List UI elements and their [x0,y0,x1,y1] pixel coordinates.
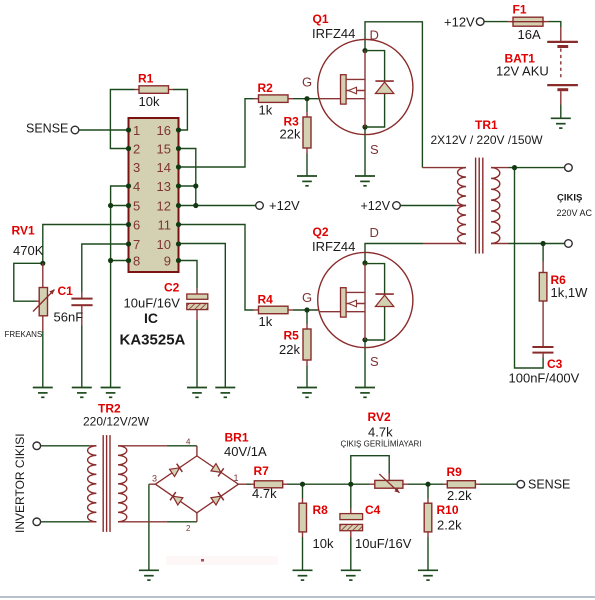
svg-text:+12V: +12V [269,198,300,213]
label R5 [284,329,300,343]
terminal SENSE top [71,126,79,134]
svg-text:IRFZ44: IRFZ44 [312,26,355,41]
value R7 4.7k [252,486,277,501]
svg-text:R10: R10 [437,503,459,517]
wire [179,244,226,388]
ground R10 [418,570,438,580]
wire [167,445,197,447]
battery BAT1 [547,27,578,105]
label INVERTOR CIKISI [13,433,27,533]
wire [111,186,129,388]
svg-text:C2: C2 [164,280,180,294]
label F1 [513,3,527,17]
node +12V top right [444,15,475,30]
svg-text:3: 3 [133,160,140,175]
wire [247,483,251,485]
svg-text:SENSE: SENSE [528,477,570,491]
label Q2 [313,225,329,239]
svg-text:470K: 470K [13,243,44,258]
label CIKIS [557,192,582,203]
svg-text:C1: C1 [58,284,74,298]
pin S Q1 [370,142,379,157]
value R2 1k [259,103,273,118]
junction Q1 source [362,124,367,129]
node +12V pin12 [269,198,300,213]
wire [41,445,89,447]
wire [179,99,254,167]
capacitor C1 [71,293,92,326]
label C3 [547,357,563,371]
bridge rectifier BR1 [149,446,247,522]
value RV1 470K [13,243,44,258]
resistor R6 [539,262,547,347]
svg-text:22k: 22k [280,127,301,142]
resistor R5 [303,324,311,366]
resistor R2 [254,95,294,103]
label Q1 [313,12,329,26]
svg-text:+12V: +12V [444,15,475,30]
svg-text:3: 3 [152,474,157,484]
value R3 22k [280,127,301,142]
label R7 [254,464,270,478]
svg-text:G: G [302,290,312,305]
svg-text:R7: R7 [254,464,270,478]
svg-text:15: 15 [157,141,171,156]
ground C4 [341,570,361,580]
svg-text:2.2k: 2.2k [437,518,462,533]
svg-text:5: 5 [133,198,140,213]
value R6 1k,1W [551,285,589,300]
svg-text:INVERTOR CIKISI: INVERTOR CIKISI [13,433,27,533]
label KA3525A [120,332,186,349]
junction TR1 secondary top [512,165,517,170]
wire [365,244,423,264]
wire [542,244,544,262]
label R2 [258,81,274,95]
wire [364,340,366,388]
svg-text:11: 11 [158,217,172,232]
label TR2 [98,402,121,416]
wire [110,90,134,149]
value C3 100nF/400V [509,371,580,386]
value C1 56nF [54,309,84,324]
node SENSE bottom [528,477,570,491]
label R4 [258,292,274,306]
junction R8 node [300,482,305,487]
wire [560,105,562,119]
ground pins 4-5-8 [101,388,121,398]
resistor R3 [303,112,311,154]
value Q1 IRFZ44 [312,26,355,41]
svg-text:7: 7 [133,237,140,252]
terminal CIKIS top [565,164,573,172]
wire [167,521,197,523]
svg-text:IRFZ44: IRFZ44 [312,239,355,254]
terminal SENSE bottom [517,480,525,488]
wire [148,484,150,570]
svg-text:16A: 16A [518,27,541,42]
wire [350,484,352,508]
pin D Q2 [370,225,379,240]
svg-text:220/12V/2W: 220/12V/2W [83,415,150,429]
terminal +12V top right [476,18,484,26]
pin G Q1 [302,75,312,90]
svg-text:22k: 22k [279,342,300,357]
label R3 [284,114,300,128]
resistor R4 [254,306,294,314]
svg-text:12V AKU: 12V AKU [496,64,549,79]
svg-text:13: 13 [157,179,171,194]
ground BAT1 [551,118,571,128]
value R4 1k [259,314,273,329]
pin 4 BR1 [186,438,191,447]
wire [179,185,196,187]
svg-text:9: 9 [164,253,171,268]
terminal invertor bottom [33,518,41,526]
potentiometer RV2 [370,474,409,493]
capacitor C4 [340,509,363,538]
wire [14,263,43,301]
wire [509,167,565,169]
label RV1 [12,223,35,237]
bottom rule [0,596,595,598]
wire [364,127,366,176]
label BAT1 [505,52,536,66]
junction Q2 gate node [304,307,309,312]
label C2 [164,280,180,294]
svg-text:10: 10 [157,237,171,252]
label R6 [551,273,567,287]
junction Q1 drain [362,48,367,53]
wire [196,320,198,388]
transistor Q1 IRFZ44 MOSFET [318,39,413,134]
label R9 [447,465,463,479]
svg-text:D: D [370,225,379,240]
pin 1 BR1 [234,473,239,483]
ground Q2 source [355,388,375,398]
svg-text:16: 16 [157,123,171,138]
svg-text:1: 1 [234,473,239,483]
svg-text:TR1: TR1 [475,118,498,132]
wire [351,456,389,485]
svg-text:220V AC: 220V AC [557,208,593,218]
ground C1 [72,388,92,398]
svg-text:40V/1A: 40V/1A [224,444,267,459]
junction R6 node [541,241,546,246]
svg-text:1: 1 [133,123,140,138]
svg-text:R8: R8 [313,503,329,517]
ground R5 [297,388,317,398]
junction R10 node [425,482,430,487]
label R8 [313,503,329,517]
svg-text:2.2k: 2.2k [447,488,472,503]
value R9 2.2k [447,488,472,503]
wire [365,22,422,168]
svg-text:4.7k: 4.7k [368,425,393,440]
label BR1 [225,431,249,445]
svg-text:14: 14 [157,160,171,175]
svg-text:G: G [302,75,312,90]
wire [179,205,256,207]
wire [79,129,129,131]
pin S Q2 [370,354,379,369]
wire [515,168,544,368]
wire [81,326,83,388]
svg-text:BR1: BR1 [225,431,249,445]
svg-text:RV1: RV1 [12,223,35,237]
label R10 [437,503,459,517]
junction Q2 source [362,337,367,342]
ground C2 [187,388,207,398]
ground R3 [297,176,317,186]
svg-text:ÇIKIŞ: ÇIKIŞ [557,192,582,203]
svg-text:S: S [370,354,379,369]
svg-text:RV2: RV2 [368,410,391,424]
capacitor C3 [532,346,553,358]
svg-text:SENSE: SENSE [26,121,68,135]
svg-text:IC: IC [144,310,158,326]
resistor R1 [135,86,174,94]
artifact pink streak [166,556,278,565]
label R1 [138,71,154,85]
transistor Q2 IRFZ44 MOSFET [318,252,413,347]
wire [427,537,429,570]
label CIKIS GERILIMI AYARI [341,440,422,449]
svg-text:R4: R4 [258,292,274,306]
potentiometer RV1 [33,263,55,331]
junction pins 4-5 [108,203,113,208]
svg-text:KA3525A: KA3525A [120,332,186,349]
wire [173,90,187,131]
label C4 [365,503,381,517]
wire [306,99,308,112]
svg-text:C3: C3 [547,357,563,371]
terminal invertor top [33,442,41,450]
label TR1 [475,118,498,132]
junction pins 5-8 [108,258,113,263]
wire [306,310,308,324]
svg-text:S: S [370,142,379,157]
label RV2 [368,410,391,424]
label IC [144,310,158,326]
value F1 16A [518,27,541,42]
svg-text:12: 12 [157,198,171,213]
value Q2 IRFZ44 [312,239,355,254]
wire [42,331,44,388]
value R1 10k [139,94,160,109]
terminal +12V pin12 [256,202,264,210]
value R8 10k [313,536,334,551]
wire [293,309,319,311]
resistor R8 [299,499,307,538]
svg-text:10uF/16V: 10uF/16V [355,536,412,551]
svg-text:8: 8 [133,253,140,268]
svg-text:Q1: Q1 [313,12,329,26]
svg-text:2: 2 [186,524,191,533]
svg-text:6: 6 [133,217,140,232]
wire [82,244,129,293]
label FREKANS [5,330,43,339]
wire [111,205,129,207]
ground R8 [293,570,313,580]
wire [287,483,370,485]
pin 3 BR1 [152,474,157,484]
label 220V AC [557,208,593,218]
svg-text:10k: 10k [313,536,334,551]
wire [549,22,561,27]
junction pin12 node [193,203,198,208]
wire [179,225,254,311]
svg-text:R2: R2 [258,81,274,95]
wire [111,260,129,262]
junction pin13 node [193,183,198,188]
pin G Q2 [302,290,312,305]
svg-text:2: 2 [133,141,140,156]
value TR2 220/12V/2W [83,415,150,429]
svg-text:ÇIKIŞ GERİLİMİAYARI: ÇIKIŞ GERİLİMİAYARI [341,440,422,449]
value C2 10uF/16V [124,295,181,310]
transformer TR1 [422,158,508,254]
svg-text:4: 4 [133,179,140,194]
resistor R9 [443,481,480,488]
wire [408,483,443,485]
value BR1 40V/1A [224,444,267,459]
svg-text:R9: R9 [447,465,463,479]
junction C4/RV2 wiper node [348,482,353,487]
svg-text:1k,1W: 1k,1W [551,285,589,300]
value BAT1 12V AKU [496,64,549,79]
junction Q2 drain [362,260,367,265]
value RV2 4.7k [368,425,393,440]
wire [427,484,429,498]
wire [41,521,89,523]
wire [302,484,304,498]
value R5 22k [279,342,300,357]
terminal +12V centre tap [393,202,401,210]
wire [509,243,565,245]
value C4 10uF/16V [355,536,412,551]
svg-text:100nF/400V: 100nF/400V [509,371,580,386]
svg-text:Q2: Q2 [313,225,329,239]
label C1 [58,284,74,298]
ground RV1 [33,388,53,398]
pin 2 BR1 [186,524,191,533]
svg-text:+12V: +12V [361,199,391,213]
value R10 2.2k [437,518,462,533]
value TR1 2X12V / 220V /150W [431,133,544,147]
wire [484,21,507,23]
svg-text:FREKANS: FREKANS [5,330,43,339]
wire [179,261,198,289]
svg-text:4: 4 [186,438,191,447]
svg-text:56nF: 56nF [54,309,84,324]
terminal CIKIS bottom [565,240,573,248]
svg-text:R5: R5 [284,329,300,343]
svg-text:10k: 10k [139,94,160,109]
svg-text:1k: 1k [259,103,273,118]
resistor R10 [424,499,432,538]
fuse F1 [508,17,549,26]
wire [306,366,308,388]
svg-text:D: D [370,28,379,43]
junction RV1 top node [40,261,45,266]
ground Q1 source [355,176,375,186]
ground BR1 pin3 [139,570,159,580]
wire [293,98,319,100]
svg-text:R1: R1 [138,71,154,85]
svg-text:1k: 1k [259,314,273,329]
svg-text:10uF/16V: 10uF/16V [124,295,181,310]
IC KA3525A body with pins 1-16 [126,118,181,272]
wire [401,205,456,207]
node +12V centre tap [361,199,391,213]
node SENSE top [26,121,68,135]
svg-text:4.7k: 4.7k [252,486,277,501]
wire [302,537,304,570]
ground pin10 [215,388,235,398]
transformer TR2 [88,435,167,532]
capacitor C2 [187,289,208,320]
wire [43,225,129,264]
svg-text:F1: F1 [513,3,527,17]
wire [350,537,352,570]
svg-text:C4: C4 [365,503,381,517]
wire [179,149,196,206]
pin D Q1 [370,28,379,43]
junction Q1 gate node [304,96,309,101]
wire [306,154,308,177]
resistor R7 [251,481,288,488]
wire [480,483,518,485]
svg-text:2X12V / 220V /150W: 2X12V / 220V /150W [431,133,544,147]
